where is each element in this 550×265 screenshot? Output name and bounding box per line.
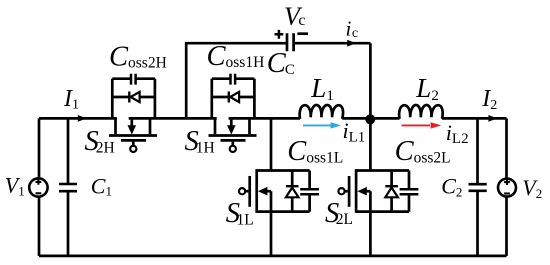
diode D2H body diode (112, 92, 155, 103)
wire C1 branch bottom (67, 191, 70, 256)
arrow iL2 current (red) (402, 122, 442, 128)
wire V1 branch bottom (38, 197, 41, 256)
capacitor Coss1L (300, 171, 319, 212)
svg-text:L1: L1 (310, 73, 334, 104)
inductor L1 (300, 105, 343, 119)
transistor S2H mosfet (109, 118, 157, 152)
svg-text:L2: L2 (415, 73, 439, 104)
wire S2L drain vertical (369, 119, 372, 170)
wire Vc top right (294, 42, 371, 45)
CC minus sign (297, 32, 308, 35)
wire top bus segment 3a (S1H source to L1) (229, 117, 300, 120)
wire top bus segment 3b (L1 to L2) (342, 117, 399, 120)
capacitor Coss1H plates (212, 74, 255, 85)
capacitor Coss2L (400, 171, 419, 212)
wire Coss2H box left (111, 79, 114, 119)
svg-text:Coss1H: Coss1H (207, 41, 265, 72)
svg-text:C2: C2 (441, 173, 462, 199)
arrow I2 current (488, 115, 497, 122)
svg-text:Vc: Vc (284, 2, 306, 31)
wire top bus segment 2 (S2H source to S1H drain) (129, 117, 217, 120)
arrow iL1 current (blue) (303, 122, 341, 128)
svg-text:C1: C1 (91, 173, 112, 198)
capacitor Coss2H plates (112, 74, 155, 85)
wire V1 branch top (38, 118, 41, 178)
transistor S1H mosfet (209, 118, 257, 152)
wire top bus segment 1 (V1+ to S2H drain) (39, 117, 117, 120)
arrow I1 current (78, 115, 87, 122)
inductor L2 (399, 105, 443, 119)
svg-text:CC: CC (267, 48, 295, 79)
svg-text:Coss1L: Coss1L (287, 136, 343, 167)
wire C2 branch top (476, 118, 479, 184)
wire ic vertical (369, 43, 372, 119)
wire S1L source vertical (270, 191, 273, 256)
svg-text:iL2: iL2 (446, 120, 469, 147)
wire Coss1H box right (253, 79, 256, 119)
voltage source V1 (29, 178, 47, 196)
svg-text:Coss2L: Coss2L (395, 136, 451, 167)
capacitor C1 plates (59, 184, 77, 191)
voltage source V2 (498, 179, 516, 197)
diode D2L body diode (385, 171, 398, 212)
transistor S1L mosfet (239, 169, 310, 213)
svg-text:ic: ic (346, 17, 359, 41)
svg-text:Coss2H: Coss2H (109, 42, 167, 73)
wire V2 branch top (505, 118, 508, 178)
wire Coss1H box left (210, 79, 213, 119)
svg-text:S2H: S2H (85, 126, 115, 157)
transistor S2L mosfet (338, 169, 409, 213)
capacitor CC plates (287, 33, 294, 51)
svg-text:iL1: iL1 (343, 118, 366, 145)
wire V2 branch bottom (505, 197, 508, 256)
wire Vc top left (186, 43, 287, 118)
wire S1L drain vertical (270, 118, 273, 170)
svg-text:S1H: S1H (185, 126, 215, 157)
svg-text:I2: I2 (481, 86, 497, 113)
diode D1L body diode (286, 171, 299, 212)
capacitor C2 plates (469, 184, 487, 191)
diode D1H body diode (212, 92, 255, 103)
wire C2 branch bottom (476, 191, 479, 256)
svg-text:V1: V1 (5, 172, 25, 198)
CC plus sign (275, 30, 284, 39)
svg-text:V2: V2 (522, 175, 542, 201)
wire top bus segment 3c (L2 to right corner) (442, 117, 507, 120)
wire bottom bus (39, 255, 507, 258)
wire C1 branch top (67, 118, 70, 184)
wire Coss2H box right (154, 79, 157, 119)
wire S2L source vertical (369, 191, 372, 256)
arrow ic current (347, 40, 356, 47)
node junction dot at L1/L2/ic/S2L (365, 114, 375, 124)
svg-text:I1: I1 (63, 86, 79, 112)
